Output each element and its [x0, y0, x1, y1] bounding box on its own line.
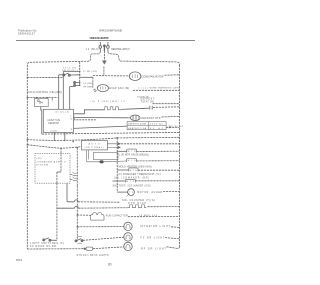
ground arrow symbol [102, 61, 106, 64]
long wire C [27, 145, 81, 149]
wire heater to neutral bus [162, 115, 180, 118]
ice maker box text [36, 158, 67, 167]
right trunk wire (neutral bus) [179, 65, 181, 247]
drop from node 50 [51, 98, 53, 102]
adaptive defrost control box U1 [43, 109, 73, 132]
motor M2 (evap fan) [97, 85, 108, 92]
left trunk wire (L1 bus) [26, 65, 28, 249]
svg-text:FZ (BR): FZ (BR) [84, 83, 93, 85]
wire bottom to lamp3 [93, 247, 124, 249]
node dot on row [36, 97, 38, 99]
switch row: freezer door switch S3 [43, 238, 51, 241]
wire element to bus [148, 206, 180, 208]
ADC text [47, 119, 60, 125]
node dot 4 on x80 bus [79, 85, 81, 87]
power plug prong neutral [107, 42, 110, 51]
node dot 1 on x80 bus [79, 71, 81, 73]
wire M3 left [117, 191, 127, 193]
wire C drop a through icebox [60, 148, 62, 172]
svg-text:SHUTOFF, ICE MAKER (GN): SHUTOFF, ICE MAKER (GN) [113, 184, 151, 187]
auto (optional) box [82, 141, 108, 150]
svg-text:ADAPTIVE: ADAPTIVE [47, 119, 60, 122]
trunk junction dots [27, 77, 28, 146]
svg-text:RF DR LIGHT: RF DR LIGHT [141, 247, 167, 250]
freezer door switch S1 [63, 73, 71, 76]
svg-text:FZ DOOR RF DR: FZ DOOR RF DR [30, 245, 56, 248]
ADC bottom pin wires [54, 132, 65, 141]
fill valve node [100, 160, 104, 163]
wire from v1 row 208 [57, 207, 75, 209]
wire hop over v2 upper [74, 200, 78, 202]
wire tstat upper to bus [153, 103, 180, 105]
wire row 208 to heater element [78, 207, 128, 210]
svg-text:TSTAT (R): TSTAT (R) [141, 101, 155, 104]
wire C drop b through icebox [76, 148, 78, 186]
wire M3 to bus [163, 191, 180, 193]
connector node [94, 89, 96, 91]
drop from node 37 [41, 107, 42, 135]
svg-text:LT DR (OR): LT DR (OR) [83, 71, 97, 73]
svg-text:SYSTEM: SYSTEM [36, 165, 48, 167]
water valve row wire left [117, 150, 126, 152]
heater element square wave [128, 205, 146, 208]
wire neutral from plug to right trunk [108, 51, 180, 65]
wire wave to tstat [121, 108, 149, 109]
ADC pin labels right [71, 116, 76, 131]
svg-text:TP: TP [129, 192, 134, 194]
wire row 227 [77, 226, 123, 228]
svg-text:(20): (20) [37, 158, 42, 160]
fresh food light L3 [124, 242, 132, 250]
wire switch to v1 [51, 239, 57, 241]
svg-text:AUTO: AUTO [89, 142, 100, 145]
header publication text [18, 28, 37, 35]
wire water valve to bus [137, 150, 180, 152]
icemaker heater row wire left [117, 169, 129, 171]
cold control switch box [34, 99, 48, 107]
svg-text:RUN CAPACITOR: RUN CAPACITOR [106, 214, 128, 217]
svg-text:(F) ICEMAKER THERMOSTAT (YL): (F) ICEMAKER THERMOSTAT (YL) [119, 173, 161, 176]
wire branch y71 [63, 70, 79, 72]
wire switch row to lamp 2 [83, 237, 124, 240]
wire freezer light to bus [165, 238, 180, 239]
thermistor on bottom wire [84, 247, 93, 250]
vertical feeder bus x117 [116, 138, 118, 192]
wire lamp3 to corner [167, 247, 178, 249]
ADC wire to defrost heater [74, 117, 131, 119]
defrost heater element squarewave [105, 107, 121, 110]
wire through fill valve [87, 160, 127, 163]
table text [128, 123, 164, 130]
wire light to bus [171, 226, 180, 229]
freezer light L2 [124, 233, 132, 241]
wire heater to bus [138, 169, 180, 171]
svg-text:(4) 8 (BK)(WH) 14: (4) 8 (BK)(WH) 14 [91, 101, 126, 103]
label defrost thermostat [141, 98, 155, 103]
label light switches [30, 242, 64, 248]
svg-text:DEFROST: DEFROST [48, 123, 60, 125]
svg-text:FZ DR LIGHT: FZ DR LIGHT [141, 236, 166, 239]
svg-text:NEUTRAL (WH) V: NEUTRAL (WH) V [111, 48, 130, 51]
svg-text:DEFROST: DEFROST [141, 98, 155, 100]
labels right of bus [83, 71, 97, 89]
motor M1 (condenser fan) [129, 72, 141, 81]
wire evap fan to neutral bus [133, 89, 180, 91]
compressor relay K1 [91, 213, 104, 221]
svg-text:5663: 5663 [16, 258, 23, 262]
svg-text:WTR: WTR [128, 151, 136, 153]
door switch S4 [75, 236, 83, 244]
auto box text [85, 142, 104, 149]
icemaker connector pair [70, 173, 77, 181]
svg-text:WIRING SCHEMATIC: WIRING SCHEMATIC [90, 36, 110, 40]
svg-text:COND FAN MOTOR: COND FAN MOTOR [142, 75, 164, 78]
cabinet ground stub [103, 67, 105, 76]
vertical bus at x80 [79, 62, 81, 86]
mold heater H1 [127, 159, 137, 163]
wattage table [127, 122, 166, 130]
wire mold heater to bus [137, 160, 180, 162]
vertical v2 below icebox [76, 186, 78, 241]
wire crusher solenoid row [78, 201, 120, 203]
svg-text:COLD CONTROL (YEL)(RD): COLD CONTROL (YEL)(RD) [28, 91, 62, 94]
svg-text:RF (WH): RF (WH) [84, 87, 93, 89]
vertical drop to evap fan [92, 77, 94, 87]
ADC stub wire pin 2 [74, 119, 97, 121]
icemaker pill component [125, 179, 135, 182]
svg-text:(OPTIONAL): (OPTIONAL) [85, 146, 104, 149]
power plug prong ground [103, 45, 105, 51]
vertical v3 short [67, 183, 74, 202]
node dot near bus [169, 127, 171, 129]
power plug prong L1 [99, 42, 102, 51]
bottom right corner of neutral bus [177, 247, 179, 249]
svg-text:15 MFD 213: 15 MFD 213 [139, 215, 158, 217]
ice maker optional dashed box [35, 154, 70, 184]
ground lead wire [103, 51, 105, 61]
arrow out 2 [108, 146, 121, 148]
svg-text:HEATER 3.5A: HEATER 3.5A [128, 127, 147, 130]
svg-text:30: 30 [108, 263, 112, 267]
svg-text:L (F) WTR VALVE (BK)(BL): L (F) WTR VALVE (BK)(BL) [119, 154, 149, 157]
wire bus to evap fan drop [80, 76, 93, 78]
svg-text:INTERIOR LIGHT: INTERIOR LIGHT [140, 225, 171, 228]
header rule [16, 40, 195, 42]
wire switch S1 to bus [70, 74, 79, 76]
arrow out 1 [108, 143, 121, 145]
wire motor M1 to neutral bus [165, 74, 180, 76]
icemaker motor M3 [127, 189, 135, 197]
ADC wire to table [74, 126, 128, 128]
svg-text:EVAP FAN (M): EVAP FAN (M) [109, 87, 129, 90]
svg-text:DEFROST 450W: DEFROST 450W [128, 124, 146, 126]
svg-text:MLD: MLD [128, 160, 136, 162]
svg-text:5995426157: 5995426157 [18, 32, 36, 36]
wire hop over v2 lower [75, 206, 79, 208]
wire v2 tap to relay [77, 214, 90, 216]
long wire A [42, 132, 180, 134]
node dot wire C a [60, 147, 62, 149]
door switch S2 [74, 81, 80, 86]
svg-text:SOL CRUSHER (T)(G): SOL CRUSHER (T)(G) [122, 200, 155, 202]
wire relay to bus [128, 216, 180, 218]
node dot 2 on x80 bus [79, 74, 81, 76]
svg-text:HTR: HTR [130, 170, 137, 172]
wire table row to bus [166, 126, 179, 128]
node dot wire C b [77, 147, 79, 149]
svg-text:( ) ( ) ( WIRE HARNESS (WH): ( ) ( ) ( WIRE HARNESS (WH) [139, 87, 180, 90]
svg-text:WRS26MF5A5B: WRS26MF5A5B [99, 29, 122, 33]
wire cold control row [27, 97, 58, 99]
wire to mullion heater [93, 75, 129, 77]
node dot on row [46, 97, 48, 99]
bottom wire left [27, 248, 83, 250]
interior light L1 [124, 222, 132, 230]
svg-text:N: N [71, 129, 73, 131]
wire L1 from plug to left trunk [27, 51, 100, 64]
wire trunk to switch cluster y77 [27, 76, 63, 78]
icemaker heater H2 [129, 168, 138, 172]
wire auto box arrow row to bus [121, 143, 180, 145]
svg-text:MTR: MTR [126, 181, 134, 183]
long wire B [27, 137, 179, 140]
svg-text:(1) (2) (3): (1) (2) (3) [55, 111, 70, 113]
ADC output wire to defrost tstat [74, 110, 105, 114]
sub box below auto box [87, 150, 118, 162]
defrost thermostat contacts [150, 106, 152, 110]
svg-text:L1 (BLK): L1 (BLK) [86, 48, 100, 51]
node dot 3 on x80 bus [79, 82, 81, 84]
svg-text:ICEMAKER ASM + F: ICEMAKER ASM + F [36, 160, 67, 163]
wire tstat to neutral bus [153, 106, 180, 109]
defrost heater E1 [130, 115, 140, 121]
water valve V1 [127, 149, 137, 153]
svg-text:MOTOR, AUGER: MOTOR, AUGER [137, 191, 162, 194]
svg-text:DEFROST HTR: DEFROST HTR [142, 117, 161, 120]
svg-text:SYS CC L RF FF LIGHTS: SYS CC L RF FF LIGHTS [77, 255, 109, 257]
vertical v1 below icebox [56, 183, 58, 240]
wire pill to bus [135, 180, 179, 182]
motor pill row wire left [113, 180, 126, 182]
svg-text:120V AC: 120V AC [150, 123, 163, 126]
wires into ADC top [59, 71, 74, 109]
